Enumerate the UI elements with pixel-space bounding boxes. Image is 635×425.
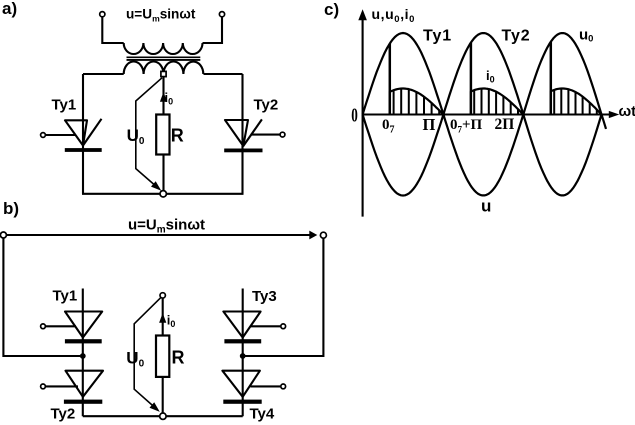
hatching pulse 3 [554, 89, 597, 114]
node output bottom (a) [160, 191, 166, 197]
source terminal left (b) [0, 232, 6, 238]
current curve i0 pulse 2 [471, 89, 523, 115]
wire right branch (a) [241, 74, 243, 194]
wire right rail (b) [245, 238, 323, 356]
transformer T1 primary winding [124, 43, 203, 54]
wire center branch (a) [162, 77, 164, 115]
firing line 2 [470, 43, 473, 115]
voltage arrow U0 (a) [136, 78, 162, 188]
node center top (b) [160, 293, 165, 298]
node secondary center tap (a) [161, 71, 166, 76]
svg-text:u: u [481, 197, 491, 216]
y-axis arrowhead [358, 9, 367, 20]
svg-text:u=Umsinωt: u=Umsinωt [126, 6, 196, 23]
sine curve -u (antiphase secondary) [363, 33, 602, 195]
thyristor Ty2 (b) [41, 371, 103, 404]
x-axis [363, 113, 612, 115]
svg-text:0: 0 [351, 104, 358, 126]
svg-text:Ty1: Ty1 [53, 288, 78, 305]
svg-text:Ty2: Ty2 [51, 406, 76, 423]
resistor R (a) [156, 115, 169, 155]
sine curve u (full wave) [363, 33, 606, 195]
current arrow i0 (b) [159, 313, 166, 323]
source terminal right (b) [320, 232, 326, 238]
svg-text:Π: Π [423, 115, 436, 134]
current arrow i0 (a) [160, 92, 167, 102]
svg-text:2Π: 2Π [495, 116, 515, 133]
wire bottom rail (a) [82, 193, 244, 195]
wire primary right lead [203, 17, 223, 43]
junction node left (b) [80, 353, 86, 359]
junction node right (b) [240, 353, 246, 359]
wire bottom rail (b) [83, 415, 243, 417]
source terminal right (a) [219, 12, 224, 17]
current curve i0 pulse 3 [551, 89, 602, 115]
wire center branch (b) [162, 298, 164, 336]
transformer T1 secondary winding [124, 62, 204, 75]
node output bottom (b) [160, 413, 166, 419]
x-axis arrowhead [609, 111, 620, 118]
thyristor Ty4 (b) [222, 371, 285, 404]
svg-text:07+Π: 07+Π [450, 117, 483, 135]
svg-text:ωt: ωt [619, 103, 635, 120]
wire primary left lead [102, 17, 123, 43]
current curve i0 pulse 1 [390, 89, 444, 115]
wire left branch (a) [82, 74, 84, 194]
svg-text:c): c) [324, 0, 339, 19]
thyristor Ty3 (b) [223, 312, 285, 344]
wire top rail left (a) [83, 73, 124, 75]
hatching pulse 2 [474, 89, 518, 114]
source terminal left (a) [100, 12, 105, 17]
svg-text:Ty2: Ty2 [254, 97, 279, 114]
svg-text:Ty1: Ty1 [423, 28, 452, 45]
svg-text:u=Umsinωt: u=Umsinωt [128, 217, 205, 236]
resistor R (b) [156, 336, 169, 377]
wire left column (b) [82, 289, 84, 417]
arrowhead top rail (b) [309, 231, 317, 240]
thyristor Ty1 (b) [41, 312, 103, 344]
wire top rail right (a) [204, 73, 243, 75]
wire left rail (b) [3, 238, 80, 356]
wire right column (b) [242, 289, 244, 417]
svg-text:Ty1: Ty1 [52, 97, 77, 114]
firing line 3 [550, 42, 553, 115]
y-axis [362, 14, 364, 217]
wire top rail (b) [5, 234, 311, 236]
svg-text:Ty4: Ty4 [250, 406, 275, 423]
svg-text:R: R [172, 348, 185, 368]
hatching pulse 1 [394, 89, 440, 114]
svg-text:Ty3: Ty3 [252, 288, 277, 305]
voltage arrow U0 (b) [134, 297, 161, 408]
svg-text:R: R [171, 126, 184, 146]
svg-text:b): b) [3, 199, 19, 218]
transformer T1 core [127, 56, 201, 58]
firing line 1 [389, 44, 392, 115]
svg-text:Ty2: Ty2 [502, 28, 531, 45]
svg-text:a): a) [2, 0, 17, 18]
thyristor Ty1 (a) [41, 119, 102, 152]
thyristor Ty2 (a) [224, 119, 285, 152]
